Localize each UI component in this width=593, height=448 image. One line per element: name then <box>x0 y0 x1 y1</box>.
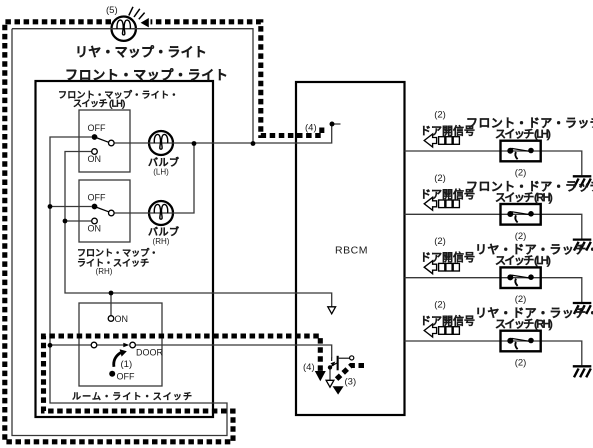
filament of bulb RH <box>154 204 167 219</box>
door open signal symbol row 3 <box>424 261 459 274</box>
front door latch switch (RH) box <box>501 204 541 225</box>
arrowhead (3) down <box>333 386 344 394</box>
lamp rear map light (5) circle <box>112 17 136 41</box>
wire RBCM through front door latch switch (LH) to ground <box>405 151 582 175</box>
junction ON common <box>63 219 68 224</box>
svg-text:OFF: OFF <box>88 193 106 203</box>
svg-text:(2): (2) <box>515 168 527 179</box>
svg-text:スイッチ (LH): スイッチ (LH) <box>495 254 550 267</box>
svg-text:スイッチ (RH): スイッチ (RH) <box>495 191 552 204</box>
wire: room switch ON contact up <box>110 293 112 316</box>
wire: junction to room switch common contact <box>50 344 91 346</box>
dashed highlight: from RBCM pin (4) top, left and to bulb5 arrow <box>151 22 322 136</box>
svg-text:(2): (2) <box>434 110 446 121</box>
svg-text:ON: ON <box>88 224 102 234</box>
rear door latch switch (RH) box <box>501 331 541 352</box>
svg-text:フロント・マップ・ライト: フロント・マップ・ライト <box>65 68 228 83</box>
lamp bulb LH circle <box>149 131 173 155</box>
arrowhead (4) down inside RBCM <box>315 371 326 381</box>
svg-text:スイッチ (LH): スイッチ (LH) <box>73 99 125 109</box>
RBCM internal ground triangle (room ON return) <box>328 307 336 314</box>
svg-text:(2): (2) <box>515 294 527 305</box>
wire: transistor emitter down to triangle <box>329 369 331 380</box>
door open signal symbol row 1 <box>424 134 459 147</box>
ground G4 <box>573 366 592 377</box>
svg-text:(3): (3) <box>345 377 357 388</box>
switch S2 contacts <box>92 204 115 224</box>
svg-text:(5): (5) <box>106 5 118 16</box>
rear door latch switch (LH) box <box>501 267 541 288</box>
svg-text:フロント・マップ・: フロント・マップ・ <box>77 248 158 258</box>
svg-text:(1): (1) <box>121 359 133 370</box>
front map light switch (RH) box S2 <box>79 180 130 242</box>
wire: OFF-common loop (left side down, bottom, back up to switches) <box>12 29 227 436</box>
svg-text:RBCM: RBCM <box>335 245 368 257</box>
front door latch switch (RH) contacts <box>507 211 534 223</box>
svg-text:ルーム・ライト・スイッチ: ルーム・ライト・スイッチ <box>72 392 193 402</box>
door open signal symbol row 2 <box>424 197 459 210</box>
svg-text:(LH): (LH) <box>153 168 169 177</box>
svg-text:(2): (2) <box>515 231 527 242</box>
svg-text:スイッチ (LH): スイッチ (LH) <box>495 128 550 141</box>
svg-text:ON: ON <box>88 154 102 164</box>
wire: ON-common (x=65) to RBCM ground triangle <box>65 152 332 307</box>
lamp bulb RH circle <box>149 201 173 225</box>
dashed highlight (3): internal switch action <box>336 366 364 380</box>
junction bulb feed node <box>251 141 256 146</box>
door open signal symbol row 4 <box>424 324 459 337</box>
curved arrow (1) to DOOR position <box>114 353 121 367</box>
wire: room switch arm common segment <box>97 344 124 346</box>
switch S1 contacts (OFF dot, arm, output circle, ON circle) <box>92 134 115 154</box>
svg-text:ON: ON <box>115 314 129 324</box>
transistor Q1 (door signal driver) <box>328 356 354 371</box>
wire: RH switch OFF stub <box>50 206 92 208</box>
filament of bulb LH <box>154 134 167 149</box>
RBCM module box U1 <box>296 82 405 415</box>
RBCM internal ground triangle (transistor emitter) <box>326 380 334 387</box>
front door latch switch (LH) box <box>501 141 541 162</box>
junction room switch common <box>48 343 53 348</box>
wire: DOOR contact to RBCM transistor <box>135 345 331 358</box>
room light switch contacts: common, arm arrow, DOOR, ON, OFF <box>91 316 135 377</box>
svg-text:(2): (2) <box>434 300 446 311</box>
svg-text:(4): (4) <box>305 123 317 134</box>
svg-text:(4): (4) <box>303 362 315 373</box>
svg-text:(2): (2) <box>515 358 527 369</box>
ground G2 <box>573 240 592 251</box>
junction room ON return <box>109 291 114 296</box>
wire overlay through rear map light <box>112 28 136 30</box>
svg-text:(RH): (RH) <box>153 237 170 246</box>
wire: RH bulb output up to LH bulb wire <box>114 144 194 214</box>
front map light switch (LH) box S1 <box>79 110 130 172</box>
ground G3 <box>573 303 592 314</box>
svg-text:リヤ・マップ・ライト: リヤ・マップ・ライト <box>75 45 207 60</box>
wire RBCM through front door latch switch (RH) to ground <box>405 214 582 238</box>
room light switch box S3 <box>79 303 162 386</box>
svg-text:(2): (2) <box>434 236 446 247</box>
dashed highlight: left loop (bulb5 left, down, bottom, to DOOR line, into RBCM pin 4) <box>5 22 321 442</box>
wire: LH bulb output into RBCM pin node <box>114 124 340 143</box>
svg-text:ドア開信号: ドア開信号 <box>420 251 475 264</box>
front map light enclosure box <box>36 81 214 417</box>
ground G1 <box>573 176 592 187</box>
wire RBCM through rear door latch switch (RH) to ground <box>405 341 582 365</box>
light rays of rear map light <box>129 7 145 19</box>
filament of rear map light <box>117 20 130 35</box>
rear door latch switch (LH) contacts <box>507 274 534 286</box>
svg-text:ドア開信号: ドア開信号 <box>420 315 475 328</box>
arrowhead into rear map light <box>141 18 149 27</box>
wire: RH switch ON stub <box>65 220 92 222</box>
junction LH/RH bulb outputs <box>192 141 197 146</box>
svg-text:(2): (2) <box>434 173 446 184</box>
junction OFF common <box>48 204 53 209</box>
junction RBCM lamp pin <box>330 122 335 127</box>
rear door latch switch (RH) contacts <box>507 338 534 350</box>
svg-text:DOOR: DOOR <box>136 348 164 358</box>
svg-text:OFF: OFF <box>88 123 106 133</box>
wire RBCM through rear door latch switch (LH) to ground <box>405 278 582 302</box>
front door latch switch (LH) contacts <box>507 148 534 160</box>
svg-text:ライト・スイッチ: ライト・スイッチ <box>77 258 149 268</box>
wire: rear map light feed, top right, down to bulbs node <box>12 29 253 144</box>
svg-text:(RH): (RH) <box>96 267 113 276</box>
svg-text:スイッチ (RH): スイッチ (RH) <box>495 318 552 331</box>
svg-text:OFF: OFF <box>117 372 135 382</box>
